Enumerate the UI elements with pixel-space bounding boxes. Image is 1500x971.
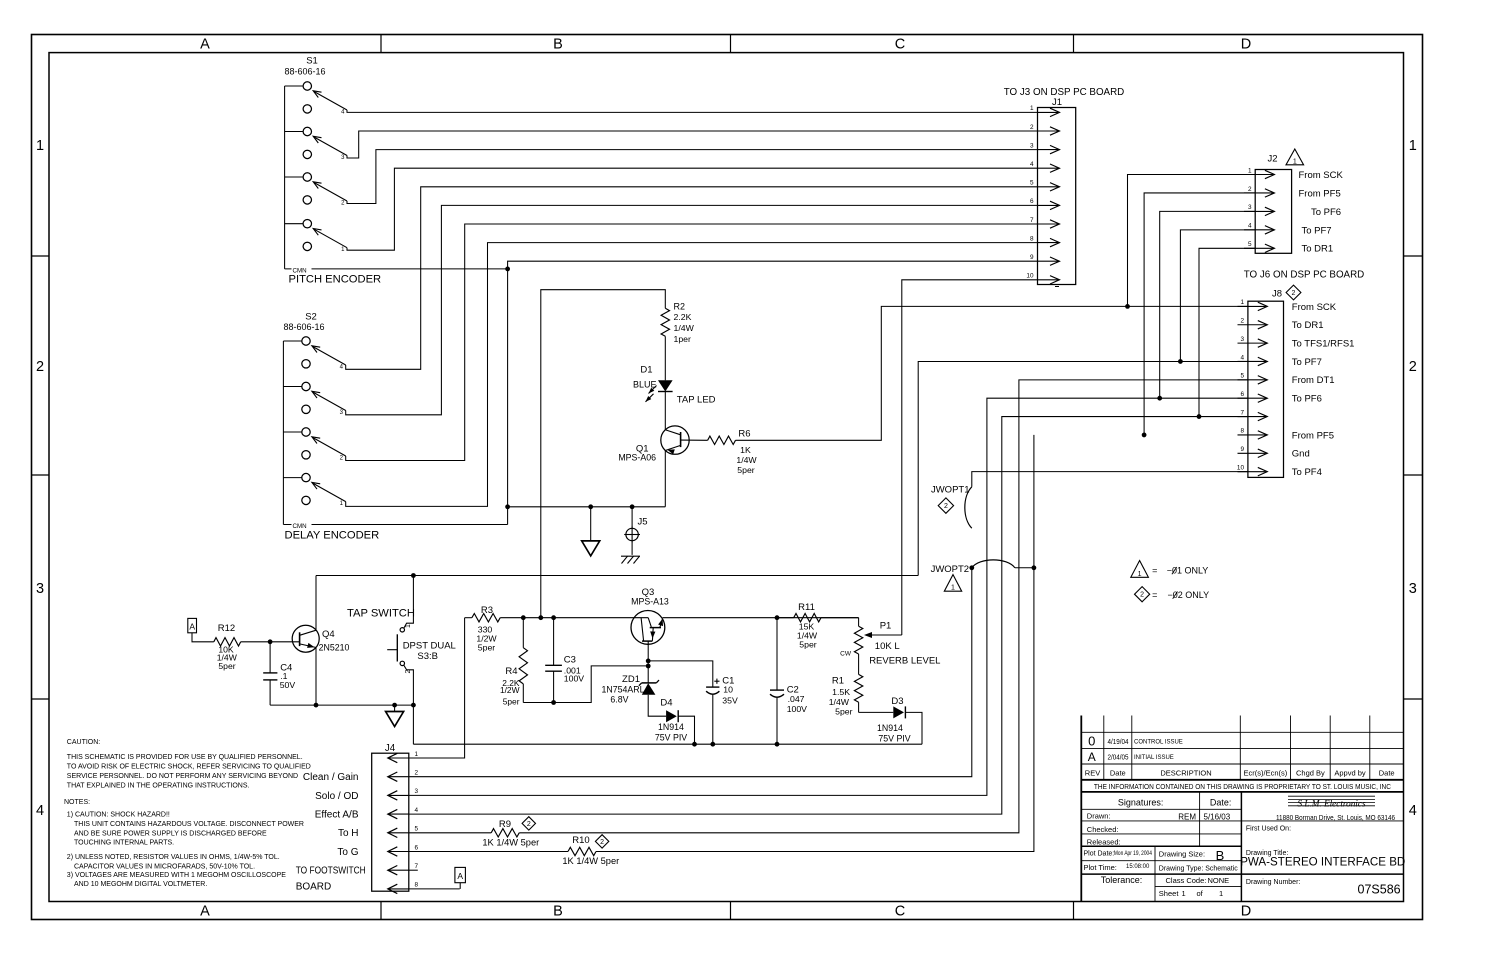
svg-text:B: B <box>553 37 563 53</box>
wire J4 pin2 to J8 pin10 <box>409 568 972 777</box>
wire S2 sw4 to J1 pin5 <box>346 187 1038 369</box>
svg-text:TAP SWITCH: TAP SWITCH <box>347 608 415 620</box>
svg-text:2: 2 <box>1030 124 1034 131</box>
label J2 pin nets <box>1299 170 1344 255</box>
svg-text:REV: REV <box>1085 768 1100 777</box>
svg-text:TAP LED: TAP LED <box>677 394 716 405</box>
svg-text:B: B <box>1216 848 1225 863</box>
svg-text:75V PIV: 75V PIV <box>655 733 687 743</box>
svg-text:To G: To G <box>337 847 358 858</box>
wire S1 sw2 to J1 pin3 <box>347 150 1038 204</box>
svg-text:Gnd: Gnd <box>1292 449 1310 460</box>
svg-text:Drawing Number:: Drawing Number: <box>1246 879 1301 886</box>
svg-text:From PF5: From PF5 <box>1292 430 1334 441</box>
svg-text:JWOPT2: JWOPT2 <box>931 564 970 575</box>
svg-text:A: A <box>457 871 463 881</box>
svg-text:To PF7: To PF7 <box>1292 357 1322 368</box>
svg-text:4: 4 <box>1409 803 1417 819</box>
svg-text:5: 5 <box>1030 180 1034 187</box>
svg-text:From SCK: From SCK <box>1299 170 1344 181</box>
wire S1 sw1 to J1 pin4 <box>347 168 1038 250</box>
svg-text:2: 2 <box>527 821 531 828</box>
node C1 bottom junction <box>710 742 715 747</box>
svg-text:1: 1 <box>1240 299 1244 306</box>
svg-text:C3: C3 <box>564 655 576 666</box>
node R4 junction <box>521 615 526 620</box>
svg-text:1K 1/4W 5per: 1K 1/4W 5per <box>562 856 619 866</box>
svg-text:1N914: 1N914 <box>658 722 684 732</box>
svg-text:A: A <box>1088 750 1096 764</box>
svg-text:1/2W: 1/2W <box>500 685 520 695</box>
svg-text:NONE: NONE <box>1208 876 1230 885</box>
svg-text:AND BE SURE POWER SUPPLY IS DI: AND BE SURE POWER SUPPLY IS DISCHARGED B… <box>74 831 267 838</box>
caution and notes text <box>64 739 311 888</box>
wire R3 to Q3 base rail <box>500 617 648 619</box>
node C3 junction <box>551 615 556 620</box>
wire S2 CMN <box>283 524 507 526</box>
svg-text:THE INFORMATION CONTAINED ON T: THE INFORMATION CONTAINED ON THIS DRAWIN… <box>1094 782 1391 791</box>
wire D1 to Q1 collector <box>664 392 666 430</box>
svg-text:35V: 35V <box>722 695 738 705</box>
svg-text:R3: R3 <box>481 605 493 616</box>
svg-text:7: 7 <box>415 863 419 870</box>
svg-text:1K: 1K <box>740 445 751 455</box>
wire R2 to D1 <box>664 336 666 380</box>
svg-text:R2: R2 <box>674 301 686 311</box>
svg-text:CW: CW <box>840 651 852 658</box>
legend diamond 2 = -02 ONLY <box>1135 587 1150 602</box>
svg-text:TO J6 ON DSP PC BOARD: TO J6 ON DSP PC BOARD <box>1244 269 1365 280</box>
flag A destination <box>455 867 466 882</box>
label J8 pin nets <box>1292 302 1355 478</box>
svg-text:To PF7: To PF7 <box>1302 225 1332 236</box>
svg-text:DESCRIPTION: DESCRIPTION <box>1160 768 1211 777</box>
svg-text:07S586: 07S586 <box>1358 883 1401 897</box>
svg-text:1K 1/4W 5per: 1K 1/4W 5per <box>482 837 539 847</box>
svg-text:Checked:: Checked: <box>1087 825 1119 834</box>
svg-text:Plot Date:: Plot Date: <box>1084 851 1115 858</box>
node S3 pin1 junction on TAP rail <box>411 573 416 578</box>
resistor R11 <box>777 617 794 619</box>
svg-text:PWA-STEREO INTERFACE BD: PWA-STEREO INTERFACE BD <box>1240 856 1405 869</box>
svg-text:CAPACITOR VALUES IN MICROFARAD: CAPACITOR VALUES IN MICROFARADS, 50V-10%… <box>74 863 255 870</box>
svg-text:4: 4 <box>1030 161 1034 168</box>
resistor R1 <box>854 674 862 702</box>
wire Q3 base rail right segment <box>663 617 859 619</box>
wire D4 to bottom rail <box>678 716 694 744</box>
svg-text:Class Code:: Class Code: <box>1166 876 1207 885</box>
svg-text:1: 1 <box>951 585 955 592</box>
svg-text:To PF6: To PF6 <box>1292 394 1322 405</box>
svg-text:1: 1 <box>36 138 44 154</box>
svg-text:J5: J5 <box>638 517 648 528</box>
svg-text:1: 1 <box>1248 167 1252 174</box>
svg-text:2: 2 <box>600 839 604 846</box>
svg-text:1) CAUTION: SHOCK HAZARD!!: 1) CAUTION: SHOCK HAZARD!! <box>67 812 170 819</box>
diode D4 1N914 <box>666 710 677 722</box>
svg-text:2: 2 <box>944 503 948 510</box>
resistor R3 <box>465 617 472 619</box>
connector J2 <box>1244 154 1292 254</box>
node ground-symbol junction <box>588 504 593 509</box>
wire R1 to D3 <box>859 711 894 713</box>
resistor R9 <box>491 829 519 837</box>
svg-text:2: 2 <box>36 359 44 375</box>
svg-text:4: 4 <box>1248 223 1252 230</box>
wire riser to J2 pin1 <box>1128 175 1256 307</box>
svg-text:R11: R11 <box>798 602 815 613</box>
signature block text <box>1084 797 1239 898</box>
svg-text:10: 10 <box>723 685 733 695</box>
svg-text:JWOPT1: JWOPT1 <box>931 485 970 496</box>
svg-text:5per: 5per <box>218 661 235 671</box>
svg-text:5per: 5per <box>503 696 520 706</box>
zener diode ZD1 1N754ARL <box>642 683 656 695</box>
wire S2 sw2 to J1 pin7 <box>346 224 1038 461</box>
svg-text:2: 2 <box>1409 359 1417 375</box>
svg-text:P1: P1 <box>880 621 892 632</box>
company logo <box>1246 796 1395 833</box>
svg-text:C: C <box>895 904 905 920</box>
svg-text:8: 8 <box>415 882 419 889</box>
svg-text:REVERB LEVEL: REVERB LEVEL <box>869 655 940 666</box>
node R11 junction <box>775 615 780 620</box>
svg-text:2.2K: 2.2K <box>674 312 692 322</box>
wire Q1 emitter to ground <box>664 450 666 506</box>
svg-text:First Used On:: First Used On: <box>1246 826 1291 833</box>
svg-text:5: 5 <box>415 826 419 833</box>
wire J4 pin7 stub <box>409 869 418 871</box>
node junction J8 pin7 <box>1197 414 1202 419</box>
svg-text:J1: J1 <box>1052 97 1062 108</box>
connector J5 chassis <box>631 507 633 529</box>
svg-text:Released:: Released: <box>1087 837 1121 846</box>
svg-text:Ecr(s)/Ecn(s): Ecr(s)/Ecn(s) <box>1244 768 1288 777</box>
svg-text:To TFS1/RFS1: To TFS1/RFS1 <box>1292 339 1355 350</box>
wire J4 pin6 to J8 pin8 via R10 <box>409 851 568 853</box>
flag A source <box>188 618 197 632</box>
wire Q4 emitter to ground wire <box>315 648 317 706</box>
svg-text:5per: 5per <box>737 465 754 475</box>
svg-text:R10: R10 <box>572 835 589 846</box>
node D4 bottom junction <box>692 742 697 747</box>
svg-text:−02 ONLY: −02 ONLY <box>1168 590 1210 600</box>
svg-text:Date: Date <box>1379 768 1395 777</box>
svg-text:2) UNLESS NOTED, RESISTOR VALU: 2) UNLESS NOTED, RESISTOR VALUES IN OHMS… <box>67 854 280 861</box>
connector J1 <box>1004 87 1125 287</box>
wire J4 pin3 to J8 pin6 <box>409 398 1248 795</box>
node J5 junction <box>630 504 635 509</box>
node C4 junction <box>268 639 273 644</box>
svg-text:2: 2 <box>415 770 419 777</box>
svg-text:A: A <box>200 37 210 53</box>
wire J4 pin8 to flag A <box>409 888 460 890</box>
svg-text:.047: .047 <box>788 694 805 704</box>
wire J4 pin4 to J8 pin7 <box>409 417 1248 815</box>
capacitor C3 <box>553 618 555 666</box>
flag triangle 1 at J2 <box>1286 149 1304 165</box>
svg-text:PITCH ENCODER: PITCH ENCODER <box>289 274 382 286</box>
svg-text:Q4: Q4 <box>322 629 335 640</box>
svg-text:100V: 100V <box>564 674 584 684</box>
jumper JWOPT1 <box>965 487 972 528</box>
svg-text:From SCK: From SCK <box>1292 302 1337 313</box>
svg-text:D3: D3 <box>891 696 903 707</box>
svg-text:5per: 5per <box>478 642 495 652</box>
wire J2 pin5 to J8 pin7 <box>1199 248 1255 416</box>
node C2 bottom junction <box>775 742 780 747</box>
svg-text:75V PIV: 75V PIV <box>878 734 910 744</box>
svg-text:Drawing Type: Schematic: Drawing Type: Schematic <box>1159 863 1238 872</box>
svg-text:50V: 50V <box>280 680 296 690</box>
svg-text:Drawing Size:: Drawing Size: <box>1159 850 1205 859</box>
svg-text:THIS SCHEMATIC IS PROVIDED FOR: THIS SCHEMATIC IS PROVIDED FOR USE BY QU… <box>67 754 303 761</box>
svg-text:To PF4: To PF4 <box>1292 467 1322 478</box>
svg-text:TOUCHING INTERNAL PARTS.: TOUCHING INTERNAL PARTS. <box>74 840 174 847</box>
svg-text:1/4W: 1/4W <box>736 455 757 465</box>
svg-text:From PF5: From PF5 <box>1299 188 1341 199</box>
svg-text:AND 10 MEGOHM DIGITAL VOLTMETE: AND 10 MEGOHM DIGITAL VOLTMETER. <box>74 881 207 888</box>
resistor R2 <box>661 308 669 336</box>
revision table text <box>1085 734 1395 791</box>
svg-text:3) VOLTAGES ARE MEASURED WITH: 3) VOLTAGES ARE MEASURED WITH 1 MEGOHM O… <box>67 872 286 879</box>
svg-text:3: 3 <box>1240 336 1244 343</box>
svg-text:TO J3 ON DSP PC BOARD: TO J3 ON DSP PC BOARD <box>1004 87 1125 98</box>
svg-text:3: 3 <box>1409 581 1417 597</box>
svg-text:Clean / Gain: Clean / Gain <box>303 772 359 783</box>
svg-text:INITIAL ISSUE: INITIAL ISSUE <box>1134 755 1174 761</box>
svg-text:2: 2 <box>1248 186 1252 193</box>
svg-text:A: A <box>189 621 195 631</box>
svg-text:ZD1: ZD1 <box>622 674 640 685</box>
svg-text:15:08:00: 15:08:00 <box>1126 864 1150 870</box>
wire S1 sw3 to J1 pin2 <box>347 131 1038 158</box>
svg-text:To PF6: To PF6 <box>1311 207 1341 218</box>
svg-text:88-606-16: 88-606-16 <box>284 67 325 77</box>
svg-text:R9: R9 <box>499 819 511 830</box>
svg-text:A: A <box>200 904 210 920</box>
svg-text:2: 2 <box>1240 318 1244 325</box>
svg-text:1: 1 <box>415 751 419 758</box>
svg-text:1/4W: 1/4W <box>674 323 695 333</box>
svg-text:3: 3 <box>415 788 419 795</box>
diode D1 TAP LED <box>658 380 673 391</box>
svg-text:8: 8 <box>1030 235 1034 242</box>
node Q3 emitter junction to R4/C3 <box>646 664 651 669</box>
wire S2 sw1 to J1 pin8 <box>346 243 1038 507</box>
svg-text:1.5K: 1.5K <box>832 687 850 697</box>
svg-text:1: 1 <box>1138 571 1142 578</box>
svg-text:4/19/04: 4/19/04 <box>1108 738 1129 746</box>
wire S2 sw3 to J1 pin6 <box>346 205 1038 414</box>
capacitor C4 <box>269 642 271 673</box>
resistor R12 <box>214 638 241 646</box>
svg-text:1: 1 <box>1409 138 1417 154</box>
wire J2 pin3 to J8 pin6 <box>1160 211 1256 398</box>
svg-text:D: D <box>1241 37 1251 53</box>
node Q4 emitter junction <box>314 703 319 708</box>
resistor R10 <box>568 847 596 855</box>
svg-text:CONTROL ISSUE: CONTROL ISSUE <box>1134 740 1183 746</box>
svg-text:of: of <box>1197 889 1204 898</box>
node junction J8 pin6 <box>1157 396 1162 401</box>
svg-text:R12: R12 <box>218 623 235 634</box>
transistor Q3 MPS-A13 <box>631 587 669 645</box>
svg-text:1: 1 <box>1293 158 1297 165</box>
svg-text:Plot Time:: Plot Time: <box>1084 863 1117 872</box>
wire TAP rail <box>316 575 918 577</box>
svg-text:10: 10 <box>1237 464 1245 471</box>
svg-text:Drawn:: Drawn: <box>1087 812 1111 821</box>
svg-text:Chgd By: Chgd By <box>1296 768 1325 777</box>
svg-text:4: 4 <box>1240 354 1244 361</box>
node S3 pin2 ground junction <box>411 703 416 708</box>
svg-text:SERVICE PERSONNEL. DO NOT PER: SERVICE PERSONNEL. DO NOT PERFORM ANY SE… <box>67 773 298 780</box>
svg-text:Mon Apr 19, 2004: Mon Apr 19, 2004 <box>1114 850 1152 857</box>
resistor R6 <box>708 436 736 444</box>
wire J2 pin2 to J8 pin8 <box>1144 193 1255 435</box>
svg-text:7: 7 <box>1030 217 1034 224</box>
svg-text:3: 3 <box>1248 204 1252 211</box>
svg-text:5: 5 <box>1248 241 1252 248</box>
svg-text:5per: 5per <box>799 640 816 650</box>
svg-text:11880 Borman Drive, St. Louis,: 11880 Borman Drive, St. Louis, MO 63146 <box>1276 813 1395 822</box>
svg-text:2N5210: 2N5210 <box>319 643 350 653</box>
svg-text:2/04/05: 2/04/05 <box>1108 754 1129 762</box>
svg-text:CAUTION:: CAUTION: <box>67 739 101 746</box>
svg-text:6: 6 <box>1030 198 1034 205</box>
svg-text:THIS UNIT CONTAINS HAZARDOUS V: THIS UNIT CONTAINS HAZARDOUS VOLTAGE. DI… <box>74 821 304 828</box>
wire TAP rail to J8 pin4 <box>918 361 1248 575</box>
svg-text:C: C <box>895 37 905 53</box>
node junction J8 pin4 <box>1178 359 1183 364</box>
svg-text:5: 5 <box>1240 373 1244 380</box>
svg-text:8: 8 <box>1240 428 1244 435</box>
wire R3 left to J4 pin1 <box>409 618 465 758</box>
svg-text:D1: D1 <box>640 365 652 376</box>
svg-text:S1: S1 <box>306 56 318 67</box>
node ground triangle junction <box>392 703 397 708</box>
wire R6 to J8 pin1 and J2 pin1 <box>736 306 1248 440</box>
svg-text:2: 2 <box>1140 592 1144 599</box>
node From SCK junction <box>1125 304 1130 309</box>
wire Q3 emitter node to C1 <box>648 661 713 687</box>
svg-text:THAT EXPLAINED IN THE OPERATIN: THAT EXPLAINED IN THE OPERATING INSTRUCT… <box>67 783 250 790</box>
legend triangle 1 = -01 ONLY <box>1131 561 1149 578</box>
node CMN junction at ground rail <box>505 504 510 509</box>
resistor R4 <box>522 618 524 648</box>
svg-text:R4: R4 <box>505 666 517 677</box>
svg-text:88-606-16: 88-606-16 <box>283 322 324 332</box>
svg-text:10: 10 <box>1026 273 1034 280</box>
svg-text:R1: R1 <box>832 676 844 687</box>
wire R12 to Q4 base <box>241 641 300 643</box>
svg-text:1per: 1per <box>674 334 691 344</box>
svg-text:MPS-A06: MPS-A06 <box>618 453 656 463</box>
svg-text:DPST DUAL: DPST DUAL <box>403 640 456 651</box>
connector J4 <box>372 743 419 893</box>
connector J8 <box>1237 289 1284 478</box>
svg-text:R6: R6 <box>738 429 750 440</box>
flag diamond 2 at J8 <box>1286 285 1301 300</box>
svg-text:0: 0 <box>1088 734 1095 749</box>
svg-text:From DT1: From DT1 <box>1292 375 1335 386</box>
wire S3 pin2 to ground and lower rail <box>404 665 414 744</box>
switch S3:B DPST DUAL <box>387 624 456 674</box>
svg-text:BLUE: BLUE <box>633 379 657 389</box>
wire S1 CMN <box>285 268 508 270</box>
svg-text:100V: 100V <box>787 704 807 714</box>
jumper JWOPT2 <box>969 565 974 570</box>
wire CMN riser to J1 pin9 <box>508 261 1038 524</box>
wire R2 top rail <box>541 290 666 618</box>
svg-text:6: 6 <box>1240 391 1244 398</box>
svg-text:S3:B: S3:B <box>417 651 438 662</box>
svg-text:=: = <box>1152 565 1157 575</box>
svg-text:D: D <box>1241 904 1251 920</box>
svg-text:3: 3 <box>36 581 44 597</box>
label J4 nets <box>296 772 366 892</box>
transistor Q4 2N5210 <box>292 625 319 652</box>
svg-text:J4: J4 <box>385 743 396 754</box>
wire P1 wiper to J1 pin10 <box>902 280 1038 635</box>
svg-text:5per: 5per <box>835 706 852 716</box>
wire R9 to J8 pin5 <box>519 380 1248 833</box>
svg-text:1: 1 <box>1219 889 1223 898</box>
svg-text:9: 9 <box>1240 446 1244 453</box>
svg-text:To H: To H <box>338 828 359 839</box>
svg-text:To DR1: To DR1 <box>1292 320 1324 331</box>
svg-text:S.L.M. Electronics: S.L.M. Electronics <box>1297 799 1365 809</box>
potentiometer P1 10K L REVERB LEVEL <box>858 618 860 627</box>
svg-text:Date:: Date: <box>1210 797 1232 807</box>
ground symbol <box>590 507 592 541</box>
svg-text:1N914: 1N914 <box>877 723 903 733</box>
switch S2 delay encoder 88-606-16 <box>283 312 345 525</box>
ground symbol at TAP switch <box>394 705 396 711</box>
node junction J8 pin8 <box>1142 433 1147 438</box>
wire S3 pin1 to TAP rail <box>404 576 414 629</box>
wire Q3 emitter <box>647 641 649 683</box>
svg-text:10K L: 10K L <box>875 641 900 652</box>
svg-text:Effect A/B: Effect A/B <box>315 810 359 821</box>
wire J2 pin4 to J8 pin4 <box>1180 230 1255 362</box>
wire D3 to bottom rail <box>905 712 922 744</box>
svg-text:REM: REM <box>1178 813 1196 822</box>
svg-text:1: 1 <box>1030 105 1034 112</box>
wire ZD1 to D4 <box>648 695 666 717</box>
svg-text:Appvd by: Appvd by <box>1334 768 1366 777</box>
svg-text:J2: J2 <box>1267 154 1277 165</box>
wire bottom rail <box>413 743 922 745</box>
svg-text:5/16/03: 5/16/03 <box>1204 813 1231 822</box>
drawing title text <box>1240 850 1405 896</box>
svg-text:2: 2 <box>1292 290 1296 297</box>
svg-text:TO AVOID RISK OF ELECTRIC SHOC: TO AVOID RISK OF ELECTRIC SHOCK, REFER S… <box>67 764 311 771</box>
node CMN junction at S1 CMN <box>505 267 510 272</box>
capacitor C1 <box>714 680 719 682</box>
wire R4/C3 bottom to ZD1 node <box>523 666 648 703</box>
svg-text:J8: J8 <box>1272 289 1282 300</box>
wire Q4 collector to TAP rail <box>315 576 317 631</box>
switch S1 pitch encoder 88-606-16 <box>284 56 347 269</box>
transistor Q1 MPS-A06 <box>661 426 689 454</box>
node Q3 emitter junction to C1 <box>646 659 651 664</box>
svg-text:D4: D4 <box>660 697 672 708</box>
svg-text:Sheet: Sheet <box>1159 889 1180 898</box>
svg-text:6: 6 <box>415 844 419 851</box>
wire S1 sw4 to J1 pin1 <box>347 110 1038 112</box>
